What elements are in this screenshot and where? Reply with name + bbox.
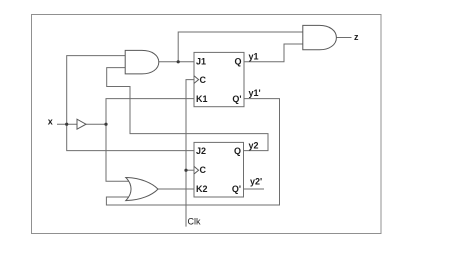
svg-text:y2': y2' [250,177,262,187]
svg-text:K1: K1 [196,94,208,104]
svg-text:y1': y1' [249,88,261,98]
svg-text:Q: Q [234,57,241,67]
svg-text:Q': Q' [232,94,241,104]
svg-text:Q': Q' [232,184,241,194]
svg-text:y2: y2 [249,141,259,151]
svg-text:J1: J1 [196,57,206,67]
svg-text:C: C [200,165,207,175]
svg-text:K2: K2 [196,184,208,194]
svg-text:J2: J2 [196,146,206,156]
svg-text:x: x [48,117,53,127]
svg-text:Q: Q [234,146,241,156]
svg-text:z: z [354,32,359,42]
svg-text:Clk: Clk [188,217,201,227]
svg-text:y1: y1 [249,52,259,62]
svg-text:C: C [200,75,207,85]
